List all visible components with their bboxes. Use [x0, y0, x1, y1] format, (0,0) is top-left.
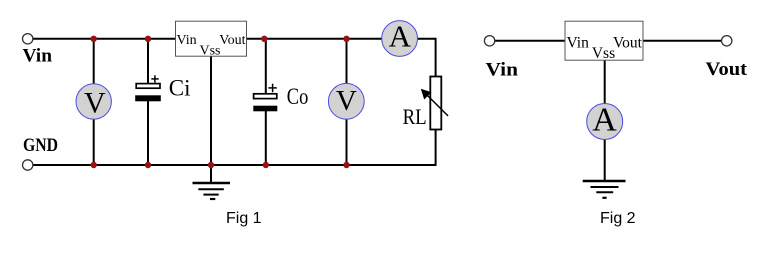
junction top rail at V1: [91, 36, 97, 42]
wire Vss lead and ground stem: [210, 56, 212, 183]
wire capacitor Ci top lead: [147, 39, 149, 85]
junction top rail at Co: [261, 36, 267, 42]
ground (Fig 2): [583, 181, 626, 198]
svg-text:A: A: [389, 18, 412, 53]
svg-text:RL: RL: [403, 104, 427, 129]
wire right vertical (RL branch): [435, 39, 437, 165]
junction bottom rail at Co: [263, 162, 269, 168]
svg-text:Fig 2: Fig 2: [600, 210, 636, 227]
wire Vss to ground through ammeter: [604, 60, 606, 181]
wire voltmeter V1 branch: [93, 39, 95, 165]
capacitor Co: [253, 84, 277, 112]
rheostat RL: [421, 77, 448, 130]
junction bottom rail at Ci: [145, 162, 151, 168]
regulator U1 box: [176, 21, 247, 58]
ammeter A1: [382, 18, 418, 56]
terminal Vin (input): [23, 34, 33, 44]
junction top rail at Ci: [145, 36, 151, 42]
wire capacitor Co bottom lead: [265, 109, 267, 165]
wire voltmeter V2 branch: [346, 39, 348, 165]
junction top rail at V2: [343, 36, 349, 42]
svg-text:A: A: [592, 102, 617, 139]
ground (Fig 1): [193, 183, 231, 199]
ammeter A2: [587, 102, 623, 140]
svg-text:Vout: Vout: [219, 33, 245, 48]
svg-text:Vout: Vout: [706, 59, 748, 80]
svg-text:Vin: Vin: [567, 34, 590, 51]
voltmeter V1: [76, 84, 111, 120]
terminal GND: [23, 160, 33, 170]
svg-text:V: V: [84, 86, 106, 119]
wire capacitor Co top lead: [265, 39, 267, 95]
svg-text:Fig 1: Fig 1: [226, 210, 262, 227]
junction bottom rail at V1: [91, 162, 97, 168]
junction bottom rail at V2: [343, 162, 349, 168]
terminal Vout (Fig 2): [722, 36, 732, 46]
junction bottom rail at ground: [208, 162, 214, 168]
wire input to regulator: [495, 40, 565, 42]
wire bottom rail: [33, 164, 437, 166]
wire capacitor Ci bottom lead: [147, 99, 149, 165]
regulator U2 box: [565, 21, 643, 62]
capacitor Ci: [135, 75, 161, 101]
voltmeter V2: [328, 83, 364, 119]
svg-text:Vin: Vin: [486, 60, 519, 81]
svg-text:Vss: Vss: [199, 44, 220, 59]
terminal Vin (Fig 2): [484, 36, 494, 46]
wire top rail: [33, 38, 437, 40]
svg-text:Co: Co: [287, 84, 309, 109]
svg-text:Vout: Vout: [613, 34, 643, 51]
svg-text:V: V: [336, 85, 357, 117]
svg-text:GND: GND: [23, 135, 58, 156]
svg-text:Vss: Vss: [592, 45, 615, 62]
wire regulator to output: [643, 40, 722, 42]
svg-text:Vin: Vin: [23, 46, 53, 67]
svg-text:Ci: Ci: [169, 76, 191, 101]
svg-text:Vin: Vin: [177, 33, 197, 48]
